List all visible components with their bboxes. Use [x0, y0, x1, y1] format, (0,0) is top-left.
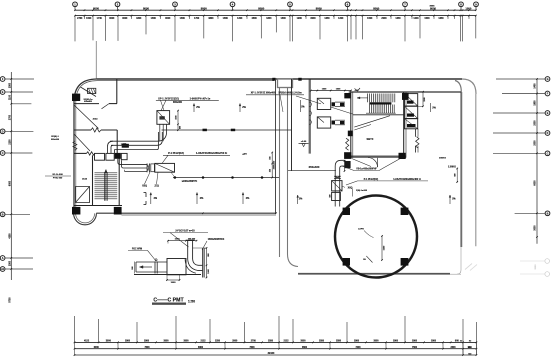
- svg-text:2000x500: 2000x500: [274, 161, 276, 169]
- detail top dimension: [168, 240, 197, 242]
- building top-right rounded corner outer: [462, 79, 476, 94]
- door leaf divider: [102, 104, 110, 109]
- leader to fan units: [296, 96, 321, 104]
- column stair bottom: [114, 207, 122, 215]
- top dimension line row1: [75, 9, 476, 11]
- pier on equipment room west wall: [348, 131, 353, 137]
- stair room west wall: [350, 92, 352, 158]
- left dimension vertical line: [10, 72, 12, 280]
- exhaust lower box: [332, 192, 341, 200]
- svg-text:2700: 2700: [251, 341, 257, 343]
- svg-text:7500: 7500: [412, 347, 418, 349]
- circular ramp: [335, 196, 417, 278]
- svg-text:+0.00: +0.00: [301, 141, 307, 143]
- svg-text:2100: 2100: [9, 139, 11, 145]
- svg-text:1500: 1500: [9, 260, 11, 266]
- svg-text:1100: 1100: [9, 94, 11, 100]
- svg-text:4144: 4144: [82, 178, 88, 181]
- svg-text:XF-1 JYSFJZ 600x400: XF-1 JYSFJZ 600x400: [251, 92, 276, 95]
- svg-text:500: 500: [329, 195, 331, 198]
- extension line at corner: [95, 41, 97, 79]
- axis circle right G: [545, 77, 550, 82]
- svg-text:XF(B)-1-600x1.2-0.5m: XF(B)-1-600x1.2-0.5m: [278, 92, 301, 94]
- svg-text:C: C: [2, 152, 4, 155]
- bottom extension lines: [74, 316, 76, 342]
- svg-text:1200: 1200: [237, 18, 243, 20]
- ramp diagonal under stair: [354, 116, 390, 127]
- trench line 250: [288, 170, 336, 172]
- stair arrow: [357, 97, 368, 99]
- bottom boundary line right area: [298, 273, 450, 275]
- svg-text:4800: 4800: [208, 17, 214, 20]
- detail plenum box: [167, 259, 186, 275]
- hall interior line upper: [162, 129, 292, 131]
- svg-text:3000: 3000: [163, 341, 169, 343]
- svg-text:C——C PMT: C——C PMT: [153, 298, 184, 304]
- svg-text:1350: 1350: [438, 18, 444, 20]
- room3 diagonal: [74, 134, 90, 151]
- svg-text:750: 750: [468, 353, 471, 355]
- svg-text:2900: 2900: [144, 341, 150, 343]
- stair room bottom wall: [74, 205, 122, 207]
- fan room west wall: [308, 79, 310, 154]
- stair room top wall: [349, 91, 461, 93]
- stair landing line: [353, 114, 404, 116]
- svg-text:3000: 3000: [535, 264, 537, 270]
- svg-text:1500: 1500: [86, 18, 92, 20]
- leaders row A to unit: [161, 100, 165, 110]
- grille dots on line: [174, 176, 177, 179]
- svg-text:200KG: 200KG: [439, 157, 446, 159]
- column ramp NW: [343, 208, 350, 215]
- svg-text:3000: 3000: [300, 341, 306, 343]
- slope mark shaft: [297, 195, 299, 204]
- ramp shaft wall west: [279, 88, 281, 258]
- svg-text:1500: 1500: [367, 18, 373, 20]
- svg-text:6500: 6500: [302, 347, 308, 349]
- axis circle right C: [545, 151, 550, 156]
- svg-text:2550: 2550: [336, 341, 342, 343]
- svg-text:4144: 4144: [93, 118, 99, 121]
- svg-text:600: 600: [454, 174, 456, 177]
- axis circle left D: [0, 129, 5, 134]
- detail duct top cap: [186, 239, 195, 241]
- svg-text:1500: 1500: [9, 82, 11, 88]
- svg-text:6000: 6000: [94, 347, 100, 349]
- axis circle right E: [545, 111, 550, 116]
- svg-text:D: D: [547, 132, 549, 135]
- stair room bottom wall: [351, 155, 406, 157]
- svg-text:2900: 2900: [354, 341, 360, 343]
- exhaust duct assembly vertical: [335, 160, 345, 206]
- fan unit lower connector: [332, 121, 335, 125]
- detail ground line: [134, 274, 201, 276]
- building right wall outer: [475, 94, 477, 246]
- bottom dimension line row2: [75, 348, 477, 350]
- svg-text:600x400: 600x400: [173, 101, 183, 104]
- upper duct horizontal run: [110, 140, 157, 142]
- svg-text:XSQ: XSQ: [348, 188, 353, 190]
- exhaust dim ticks: [344, 161, 346, 171]
- svg-text:1200: 1200: [338, 18, 344, 20]
- axis circle 5: [288, 2, 293, 7]
- svg-text:FGZ HFM: FGZ HFM: [132, 248, 142, 250]
- svg-text:R9: R9: [363, 259, 365, 261]
- circle top annotation: [352, 189, 354, 197]
- svg-text:2122: 2122: [283, 341, 289, 343]
- svg-text:1500: 1500: [465, 6, 471, 10]
- flex bumps on wall: [309, 102, 311, 106]
- svg-text:1500: 1500: [171, 282, 177, 284]
- svg-text:2300: 2300: [450, 347, 456, 349]
- axis circle 8: [459, 2, 464, 7]
- left wing divider wall y130: [74, 129, 91, 131]
- building left wall: [73, 102, 75, 214]
- svg-text:P(B)-1a-600: P(B)-1a-600: [356, 190, 368, 192]
- shaft box 1: [405, 94, 418, 106]
- svg-text:1-XSJYX1250x1250x700 1t: 1-XSJYX1250x1250x700 1t: [196, 152, 227, 155]
- svg-text:2760: 2760: [77, 18, 83, 20]
- wall y153 with break: [74, 152, 87, 154]
- lower duct from unit row: [118, 159, 147, 165]
- svg-text:4000: 4000: [109, 17, 115, 20]
- break zigzag divider y130: [91, 128, 101, 132]
- svg-text:1-900XPY+XF+1e: 1-900XPY+XF+1e: [190, 97, 211, 101]
- axis circle left A: [0, 256, 5, 261]
- cut mark C left: [145, 193, 147, 198]
- svg-text:C: C: [547, 152, 549, 155]
- svg-text:2550: 2550: [319, 341, 325, 343]
- column ramp SW: [343, 258, 350, 266]
- column left bottom: [72, 207, 80, 215]
- east small dim: [456, 169, 458, 183]
- axis circle 9: [474, 2, 479, 7]
- ramp inner dimension: [381, 236, 383, 260]
- fan unit upper connector: [332, 102, 335, 106]
- upper duct right elbow up: [157, 124, 167, 141]
- axis circle left E: [0, 90, 5, 95]
- svg-text:2.00KG: 2.00KG: [448, 166, 456, 168]
- hall fan unit duct drop: [159, 124, 161, 141]
- svg-text:w200: w200: [121, 144, 127, 146]
- svg-text:1500: 1500: [281, 18, 287, 20]
- building top wall: [97, 78, 462, 80]
- svg-text:800: 800: [179, 126, 181, 129]
- svg-text:1500: 1500: [180, 18, 186, 20]
- svg-text:B: B: [2, 213, 4, 216]
- faint watermark strokes: [465, 264, 472, 270]
- svg-text:1500: 1500: [151, 18, 157, 20]
- wall marks on upper line: [203, 129, 207, 132]
- shaft opening rect top: [278, 79, 293, 88]
- right wing west wall: [291, 79, 293, 171]
- svg-text:7500: 7500: [144, 347, 150, 349]
- svg-text:3000: 3000: [310, 18, 316, 20]
- svg-text:250: 250: [269, 169, 271, 172]
- slope marks lower: [150, 193, 152, 205]
- axis circle 1: [73, 2, 78, 7]
- svg-text:6000: 6000: [535, 180, 537, 186]
- fan unit row left wing: [95, 153, 105, 160]
- svg-text:1:50: 1:50: [188, 299, 195, 303]
- svg-text:+PY: +PY: [242, 153, 247, 156]
- axis circle left C: [0, 151, 5, 156]
- svg-text:7500: 7500: [249, 347, 255, 349]
- shaft box 3: [405, 119, 418, 129]
- svg-text:G: G: [547, 78, 549, 81]
- hall fan unit dim ticks: [177, 111, 179, 131]
- column hall mid-left axis2: [115, 153, 121, 159]
- hall bottom wall: [96, 212, 276, 214]
- svg-text:1500: 1500: [175, 115, 177, 119]
- svg-text:1350: 1350: [324, 18, 330, 20]
- svg-text:2-FGCYGJT w=25: 2-FGCYGJT w=25: [175, 231, 195, 233]
- svg-text:8966: 8966: [430, 5, 436, 7]
- axis circle 6: [345, 2, 350, 7]
- building right wall inner: [455, 81, 461, 93]
- exhaust silencer: [332, 181, 342, 191]
- svg-text:2000: 2000: [535, 120, 537, 126]
- svg-text:3000: 3000: [373, 341, 379, 343]
- axis circle right F: [545, 91, 550, 96]
- detail right dimension: [206, 248, 208, 278]
- detail vertical duct: [187, 241, 189, 260]
- svg-text:PYSJ 500: PYSJ 500: [53, 177, 63, 179]
- bottom right connectors: [462, 342, 464, 355]
- svg-text:SBYF: SBYF: [367, 137, 374, 141]
- fan room dim line: [311, 90, 351, 92]
- corner room fan XF(B)-1a: [81, 87, 97, 97]
- fan unit upper: [317, 98, 330, 109]
- svg-text:600x400: 600x400: [84, 100, 93, 103]
- slope mark fan room: [299, 100, 301, 112]
- svg-text:1500: 1500: [223, 18, 229, 20]
- svg-text:6000: 6000: [9, 180, 11, 186]
- svg-text:2000: 2000: [381, 18, 387, 20]
- svg-text:1350: 1350: [395, 18, 401, 20]
- svg-text:2900: 2900: [232, 341, 238, 343]
- wall dim right of hall: [271, 153, 273, 178]
- faint axis circle right lower: [545, 259, 550, 264]
- small box before silencer: [151, 164, 155, 172]
- axis circle left B: [0, 212, 5, 217]
- svg-text:XF-1 JYSFJZ(DZ): XF-1 JYSFJZ(DZ): [158, 97, 179, 101]
- svg-text:1200: 1200: [413, 18, 419, 20]
- column stair room SE: [399, 153, 406, 159]
- svg-text:A: A: [2, 257, 4, 260]
- column ramp NE: [401, 208, 409, 215]
- detail duct horizontal: [136, 261, 167, 263]
- svg-text:2000: 2000: [535, 140, 537, 146]
- top dimension ticks and extension lines: [74, 9, 76, 11]
- axis circle 2: [115, 2, 120, 7]
- svg-text:39440: 39440: [268, 352, 275, 355]
- duty room parallelogram: [76, 187, 90, 203]
- svg-text:2900: 2900: [431, 341, 437, 343]
- right wall thin continuation to ramp: [460, 247, 462, 270]
- svg-text:4500: 4500: [252, 17, 258, 20]
- svg-text:P-1 PFJZ(DZ): P-1 PFJZ(DZ): [364, 179, 379, 181]
- svg-text:3000: 3000: [535, 225, 537, 231]
- detail elbow to wall: [188, 259, 203, 270]
- svg-text:LXPD: LXPD: [358, 229, 364, 231]
- left wing inner vertical wall: [116, 79, 118, 104]
- left wing bottom bulge: [74, 213, 97, 224]
- shaft box 2: [405, 106, 418, 118]
- svg-text:XF(B)-1: XF(B)-1: [51, 136, 60, 138]
- svg-text:250:450: 250:450: [188, 238, 196, 241]
- svg-text:1500: 1500: [424, 97, 426, 101]
- shaft dim line east: [422, 92, 424, 107]
- svg-text:4300: 4300: [136, 17, 142, 20]
- svg-text:2900: 2900: [125, 341, 131, 343]
- elevation mark: [299, 143, 309, 145]
- axis circle 3: [173, 2, 178, 7]
- svg-text:1700: 1700: [194, 18, 200, 20]
- exhaust duct inlet dark fitting: [345, 161, 351, 168]
- svg-text:8000: 8000: [373, 6, 379, 10]
- left wall break zigzag: [73, 141, 77, 150]
- svg-text:3000: 3000: [165, 18, 171, 20]
- svg-text:3000: 3000: [106, 341, 112, 343]
- svg-text:4122: 4122: [84, 340, 90, 343]
- svg-text:1-XSJYX1200x800x400 1t: 1-XSJYX1200x800x400 1t: [393, 178, 421, 181]
- door arc equipment room: [368, 158, 378, 168]
- exhaust flex connector: [334, 175, 341, 177]
- hall interior line lower: [173, 177, 279, 179]
- svg-text:2250: 2250: [215, 341, 221, 343]
- svg-text:1450: 1450: [534, 83, 537, 89]
- top wall black marks: [272, 78, 275, 81]
- svg-text:6300: 6300: [198, 347, 204, 349]
- svg-text:8000: 8000: [316, 6, 322, 10]
- stair room east wall: [403, 92, 405, 158]
- axis circle left A1: [0, 267, 5, 272]
- svg-text:B: B: [547, 212, 549, 215]
- axis circle left F: [0, 77, 5, 82]
- svg-text:D: D: [2, 130, 4, 133]
- hall fan unit XF-1: [157, 111, 170, 125]
- svg-text:2900: 2900: [412, 341, 418, 343]
- column stair room SW: [344, 152, 351, 159]
- svg-text:1900: 1900: [297, 18, 303, 20]
- staircase stringer: [104, 172, 106, 201]
- stair enclosure walls: [92, 155, 94, 205]
- svg-text:2550: 2550: [268, 341, 274, 343]
- slope mark east wall upper: [430, 103, 432, 112]
- svg-text:P-1 PFJZ(DZ): P-1 PFJZ(DZ): [168, 152, 184, 155]
- svg-text:7200: 7200: [355, 347, 361, 349]
- svg-text:250x430: 250x430: [309, 165, 320, 169]
- right dimension vertical line: [536, 79, 538, 244]
- axis circle 7: [403, 2, 408, 7]
- staircase right wing: [367, 94, 369, 103]
- room2 diagonal: [74, 105, 99, 129]
- axis circle right D: [545, 131, 550, 136]
- upper duct left elbow down: [108, 141, 114, 153]
- axis circle right B: [545, 211, 550, 216]
- svg-text:1500: 1500: [424, 18, 430, 20]
- svg-text:XSQ: XSQ: [142, 186, 147, 188]
- svg-text:500: 500: [269, 156, 271, 159]
- svg-text:1500x500BYFK: 1500x500BYFK: [208, 239, 225, 241]
- svg-text:1350: 1350: [266, 18, 272, 20]
- staircase arrow: [105, 170, 107, 201]
- fan unit lower: [317, 117, 330, 128]
- axis circle 4: [230, 2, 235, 7]
- column ramp SE: [401, 258, 409, 266]
- svg-text:1740: 1740: [97, 17, 103, 20]
- bottom dimension ticks: [74, 342, 76, 344]
- svg-text:3000: 3000: [183, 341, 189, 343]
- top dimension line row2: [75, 15, 476, 17]
- detail damper: [154, 262, 156, 274]
- detail left small dim: [134, 262, 136, 274]
- svg-text:900: 900: [468, 347, 471, 349]
- svg-text:2900: 2900: [393, 341, 399, 343]
- leader to NE column: [379, 159, 400, 171]
- svg-text:2122: 2122: [200, 341, 206, 343]
- svg-text:5700: 5700: [9, 297, 11, 303]
- ramp inner tick: [366, 256, 372, 263]
- svg-text:w500x250PYK: w500x250PYK: [182, 181, 198, 183]
- slope marks upper: [193, 104, 195, 113]
- svg-text:500: 500: [132, 266, 134, 269]
- svg-text:4350: 4350: [8, 233, 11, 239]
- bottom dimension line row1: [75, 341, 477, 343]
- break line west wall equipment room: [346, 138, 349, 150]
- left wing divider wall y103: [74, 103, 99, 105]
- slope mark east of circle: [449, 195, 451, 204]
- column left top: [72, 94, 80, 101]
- column stair room NW: [344, 93, 350, 98]
- stair up scribble: [355, 88, 361, 91]
- silencer box lower duct: [155, 163, 175, 172]
- staircase treads left wing: [95, 172, 118, 174]
- svg-text:2700: 2700: [9, 114, 11, 120]
- detail bottom dimension: [167, 279, 180, 281]
- left extension line no circle: [11, 103, 31, 105]
- detail wall line: [202, 248, 204, 278]
- hall east wall: [275, 80, 277, 214]
- column stair room NE: [402, 93, 409, 100]
- detail duct arrow: [140, 266, 153, 268]
- building top-left rounded corner: [74, 79, 97, 102]
- flex connector: [146, 164, 148, 173]
- east outer wall below boxes: [415, 129, 417, 137]
- svg-text:4000: 4000: [122, 17, 128, 20]
- svg-text:JZQ: JZQ: [154, 186, 159, 188]
- duct damper dark segment: [122, 144, 129, 148]
- svg-text:1950: 1950: [535, 100, 537, 106]
- ramp shaft wall east with corner: [288, 88, 299, 267]
- svg-text:500x500: 500x500: [51, 139, 60, 141]
- bottom dimension line row3: [75, 354, 477, 356]
